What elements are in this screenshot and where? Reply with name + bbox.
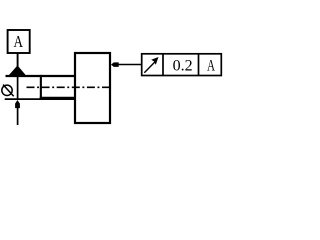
datum triangle [7, 65, 27, 77]
small cylinder (datum feature) [40, 75, 75, 98]
circular runout symbol (cell 1) [144, 57, 158, 73]
FCF divider 2 [198, 54, 200, 76]
svg-text:0.2: 0.2 [173, 58, 193, 75]
vertical dimension line [17, 77, 19, 99]
bottom extension line [5, 98, 75, 100]
leader arrowhead (points left at large cylinder) [111, 62, 119, 67]
svg-text:A: A [14, 32, 24, 51]
datum feature frame A [8, 30, 30, 53]
svg-text:A: A [207, 57, 216, 74]
extension line (top of small cylinder, extended left under triangle) [6, 75, 76, 77]
diameter symbol (circle with reverse slash) [2, 85, 14, 97]
centerline [27, 86, 111, 88]
datum stem [17, 53, 19, 66]
feature control frame outline [142, 54, 222, 76]
FCF divider 1 [162, 54, 164, 76]
large cylinder [75, 53, 110, 123]
leader line from feature control frame [118, 64, 142, 66]
dimension arrow (points up at extension line) [15, 100, 20, 125]
